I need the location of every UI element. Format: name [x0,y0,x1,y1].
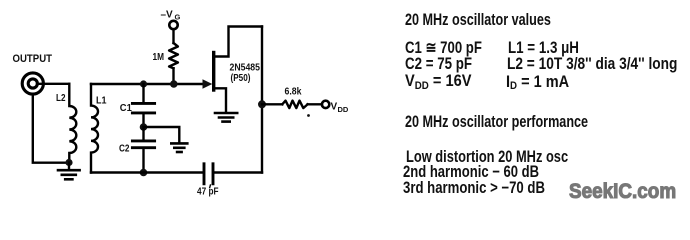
value C1 [405,40,482,57]
svg-text:(P50): (P50) [231,73,251,84]
wire mid node to ground [144,127,180,143]
value C2 [405,56,472,73]
resistor 1M [169,43,178,68]
wire C1 bottom to mid node [142,114,144,127]
svg-text:–V: –V [161,10,174,21]
value L1 [508,40,579,57]
transistor Q1 2N5485 channel bar [212,53,215,91]
node drain rail junction [258,100,266,108]
wire C2 bottom to bottom rail [142,149,144,173]
wire mid node to C2 [142,127,144,140]
line: low distortion [406,149,568,166]
drain wire up and over to right rail [214,27,262,57]
ground under L2 [58,163,80,180]
wire connector bottom down and right to L2 bottom node [33,94,66,163]
watermark SeekIC.com [569,181,676,202]
stray mark under 6.8k [307,114,310,117]
svg-text:L2: L2 [56,93,66,104]
svg-text:DD: DD [338,105,349,114]
svg-text:V: V [331,102,338,113]
node C1 top [140,80,147,87]
svg-text:47 pF: 47 pF [197,187,219,198]
svg-text:OUTPUT: OUTPUT [13,53,53,65]
svg-text:1M: 1M [153,52,165,63]
capacitor C2 [132,141,154,148]
wire 47pF to right rail [214,171,262,173]
svg-text:6.8k: 6.8k [285,87,302,98]
output connector J1 [22,73,43,94]
wire bottom rail left of 47pF [91,171,203,173]
node between C1 and C2 [140,123,148,131]
svg-text:G: G [175,13,181,22]
label -VG [161,10,181,22]
value ID [506,74,569,91]
title: 20 MHz oscillator values [405,12,551,29]
resistor 6.8k [282,101,307,109]
node gate junction [170,80,178,88]
wire node to 6.8k [262,103,282,105]
source wire down to ground [214,88,226,112]
ground at source [215,113,237,122]
wire 6.8k to VDD terminal [308,103,322,105]
inductor L1 [91,84,98,173]
ground at C1/C2 midpoint [171,143,187,152]
terminal VDD [322,101,329,108]
value L2 [507,56,677,73]
wire resistor to gate node [172,68,174,84]
title: 20 MHz oscillator performance [405,114,588,131]
gate arrow of JFET [203,79,213,89]
wire connector to L2 top [37,83,69,85]
line: 2nd harmonic [403,164,539,181]
terminal -VG [169,21,177,29]
wire top rail tank to gate [91,83,203,85]
wire C1 stub [142,84,144,102]
line: 3rd harmonic [403,180,545,197]
capacitor C1 [132,103,154,113]
wire VG to resistor [172,29,174,43]
svg-text:C1: C1 [120,103,132,114]
wire right rail drain to bottom [261,27,263,173]
svg-text:2N5485: 2N5485 [230,63,261,74]
stray tick above 47pF label [209,185,212,188]
capacitor 47pF [204,164,213,184]
label VDD [331,102,349,115]
value VDD [405,73,471,90]
svg-text:L1: L1 [96,96,107,107]
node at L2 bottom [65,159,72,166]
inductor L2 [69,84,76,162]
node C2 bottom on rail [140,169,148,177]
svg-text:C2: C2 [119,144,130,155]
